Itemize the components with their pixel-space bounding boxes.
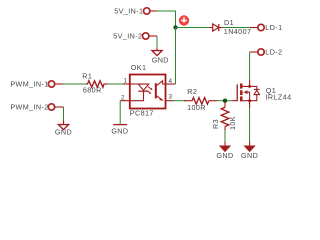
transistor Q1 xyxy=(232,80,260,109)
ground 5V_IN-2 xyxy=(152,48,169,65)
pin 1 xyxy=(123,83,130,85)
diode D1 xyxy=(209,24,223,31)
wire R1 to OK1 pin 1 xyxy=(108,83,123,85)
pin 4 xyxy=(166,83,176,85)
svg-text:GND: GND xyxy=(152,56,169,65)
wire PWM_IN-1 to R1 xyxy=(63,83,88,85)
svg-text:R3: R3 xyxy=(211,119,220,129)
wire D1 to LD-1 xyxy=(223,27,250,29)
wire junction to D1 xyxy=(176,27,209,29)
svg-text:GND: GND xyxy=(216,151,233,160)
resistor R2 xyxy=(184,98,217,105)
LED inside OK1 xyxy=(130,83,144,85)
svg-text:D1: D1 xyxy=(224,18,234,27)
svg-text:680R: 680R xyxy=(83,86,102,95)
wire junction down to OK1 pin 4 xyxy=(175,28,177,85)
junction node 5V xyxy=(173,25,177,29)
annotation plus badge xyxy=(179,15,189,25)
svg-text:LD-1: LD-1 xyxy=(265,23,282,32)
LED photon arrows xyxy=(148,87,152,90)
resistor R1 xyxy=(86,81,108,88)
svg-text:4: 4 xyxy=(169,78,173,85)
channel segments xyxy=(240,84,243,89)
net port PWM_IN-1 xyxy=(10,79,63,88)
net port LD-1 xyxy=(250,23,283,32)
ground R3 xyxy=(216,142,233,160)
wire OK1 pin 2 down to ground xyxy=(119,101,121,124)
svg-text:1: 1 xyxy=(123,78,127,85)
svg-text:100R: 100R xyxy=(187,103,206,112)
net port LD-2 xyxy=(250,47,283,56)
gate bar xyxy=(236,84,238,101)
wire 5V_IN-2 down to ground xyxy=(156,36,158,48)
drain connection xyxy=(243,80,250,87)
svg-text:GND: GND xyxy=(241,151,258,160)
ground Q1 source xyxy=(241,142,258,160)
wire 5V_IN-1 to junction xyxy=(157,11,176,28)
net port 5V_IN-1 xyxy=(114,6,157,15)
wire LD-2 down to Q1 drain xyxy=(249,52,251,80)
net port 5V_IN-2 xyxy=(113,31,157,40)
wire R3 to ground xyxy=(224,130,226,142)
phototransistor inside OK1 xyxy=(155,83,157,98)
svg-text:LD-2: LD-2 xyxy=(265,47,282,56)
bulk arrow xyxy=(243,90,247,94)
svg-text:IRLZ44: IRLZ44 xyxy=(266,93,292,102)
ground PWM_IN-2 xyxy=(55,121,72,137)
svg-text:PWM_IN-1: PWM_IN-1 xyxy=(10,79,48,88)
source connection xyxy=(243,101,250,108)
optocoupler OK1 xyxy=(120,75,175,109)
body diode xyxy=(250,86,257,89)
ground OK1 pin 2 xyxy=(111,124,128,136)
gate lead xyxy=(232,100,237,102)
svg-text:PC817: PC817 xyxy=(130,109,154,118)
pin 2 xyxy=(120,100,130,102)
svg-text:PWM_IN-2: PWM_IN-2 xyxy=(10,102,48,111)
svg-text:5V_IN-2: 5V_IN-2 xyxy=(113,31,142,40)
pin 3 xyxy=(166,100,174,102)
wire Q1 source to ground xyxy=(249,108,251,142)
svg-text:R2: R2 xyxy=(187,87,197,96)
wire PWM_IN-2 down to ground xyxy=(63,107,65,121)
svg-text:1N4007: 1N4007 xyxy=(224,27,252,36)
symbol junction dots xyxy=(248,85,251,88)
net port PWM_IN-2 xyxy=(10,102,63,111)
wire R2 to gate junction xyxy=(217,100,232,102)
junction node gate xyxy=(223,99,227,103)
svg-text:OK1: OK1 xyxy=(131,63,147,72)
svg-text:2: 2 xyxy=(121,94,125,101)
resistor R3 xyxy=(221,102,229,130)
svg-text:R1: R1 xyxy=(82,72,92,81)
svg-text:GND: GND xyxy=(55,128,72,137)
svg-text:5V_IN-1: 5V_IN-1 xyxy=(114,6,143,15)
svg-text:3: 3 xyxy=(168,93,172,100)
wire OK1 pin 3 to R2 xyxy=(174,100,187,102)
svg-text:10K: 10K xyxy=(228,116,237,130)
svg-text:GND: GND xyxy=(111,126,128,135)
